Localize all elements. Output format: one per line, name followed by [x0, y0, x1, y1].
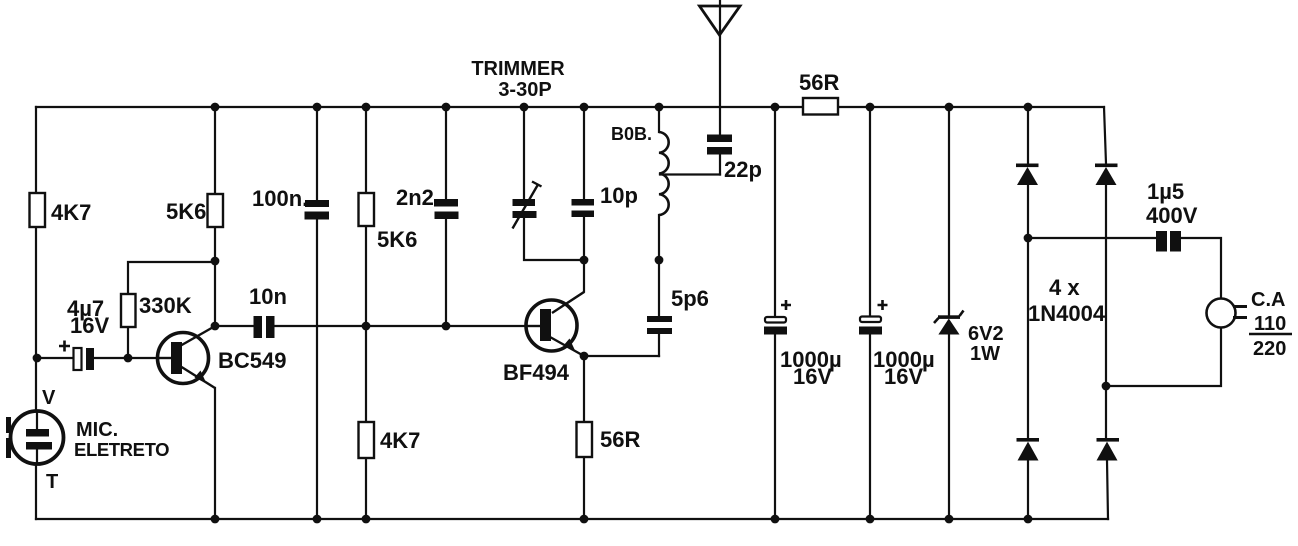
svg-text:110: 110 — [1254, 313, 1286, 335]
svg-text:C.A: C.A — [1251, 289, 1285, 311]
svg-text:1W: 1W — [970, 343, 1000, 365]
svg-text:1N4004: 1N4004 — [1028, 301, 1106, 326]
svg-text:BF494: BF494 — [503, 360, 570, 385]
svg-text:22p: 22p — [724, 157, 762, 182]
svg-text:56R: 56R — [799, 70, 839, 95]
svg-text:BC549: BC549 — [218, 348, 286, 373]
svg-text:MIC.: MIC. — [76, 419, 118, 441]
svg-text:3-30P: 3-30P — [498, 79, 551, 101]
svg-text:T: T — [46, 471, 58, 493]
svg-text:220: 220 — [1253, 338, 1286, 360]
svg-text:16V: 16V — [70, 313, 109, 338]
svg-text:4K7: 4K7 — [380, 428, 420, 453]
svg-text:56R: 56R — [600, 427, 640, 452]
svg-text:1µ5: 1µ5 — [1147, 179, 1184, 204]
svg-text:10n: 10n — [249, 284, 287, 309]
svg-text:400V: 400V — [1146, 203, 1198, 228]
svg-text:6V2: 6V2 — [968, 323, 1004, 345]
svg-text:4K7: 4K7 — [51, 200, 91, 225]
svg-text:ELETRETO: ELETRETO — [74, 439, 169, 460]
svg-text:V: V — [42, 387, 56, 409]
svg-text:16V: 16V — [793, 364, 832, 389]
svg-text:2n2: 2n2 — [396, 185, 434, 210]
svg-text:16V: 16V — [884, 364, 923, 389]
svg-text:TRIMMER: TRIMMER — [471, 58, 565, 80]
svg-text:10p: 10p — [600, 183, 638, 208]
svg-text:B0B.: B0B. — [611, 124, 652, 144]
svg-text:5p6: 5p6 — [671, 286, 709, 311]
svg-text:100n.: 100n. — [252, 186, 308, 211]
svg-text:5K6: 5K6 — [166, 199, 206, 224]
svg-text:5K6: 5K6 — [377, 227, 417, 252]
svg-text:330K: 330K — [139, 293, 192, 318]
svg-text:4 x: 4 x — [1049, 275, 1080, 300]
